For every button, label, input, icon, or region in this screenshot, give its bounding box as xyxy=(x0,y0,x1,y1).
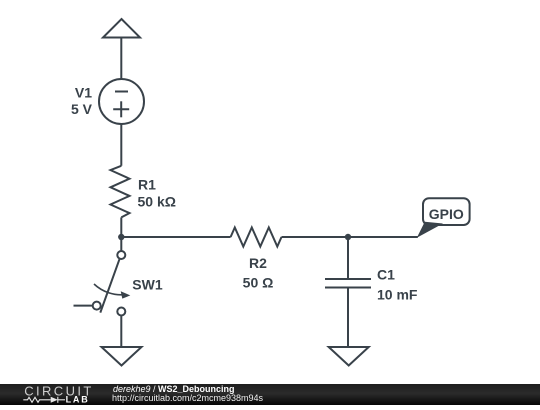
svg-text:V1: V1 xyxy=(75,85,92,101)
svg-text:10 mF: 10 mF xyxy=(377,286,418,302)
svg-text:5 V: 5 V xyxy=(71,101,93,117)
svg-text:50 Ω: 50 Ω xyxy=(243,274,274,290)
svg-text:C1: C1 xyxy=(377,266,395,282)
svg-text:SW1: SW1 xyxy=(132,277,163,293)
svg-text:50 kΩ: 50 kΩ xyxy=(138,194,176,210)
svg-text:R2: R2 xyxy=(249,255,267,271)
svg-text:GPIO: GPIO xyxy=(429,206,464,222)
svg-text:LAB: LAB xyxy=(66,394,90,404)
svg-text:R1: R1 xyxy=(138,176,156,192)
